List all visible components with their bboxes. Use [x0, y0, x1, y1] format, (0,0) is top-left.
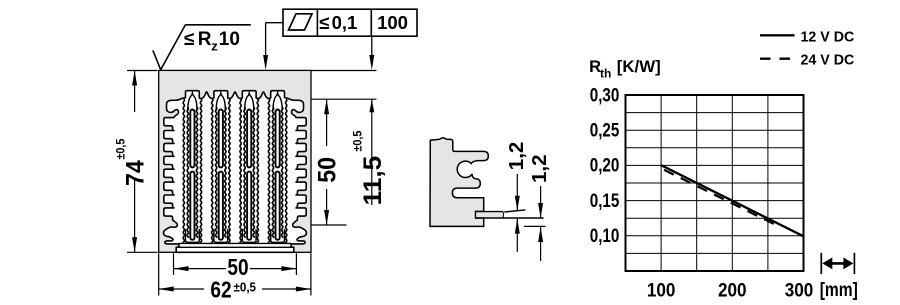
tower channel at x=278	[268, 93, 286, 243]
svg-text:±0,5: ±0,5	[234, 280, 257, 295]
svg-text:100: 100	[647, 279, 676, 300]
solder pin tongue	[476, 210, 544, 218]
mm scale symbol	[821, 253, 854, 274]
heatsink body grey outline (62x74 plan view)	[159, 70, 311, 252]
dimension 11,5 +-0.5 (right side)	[352, 99, 387, 205]
heatsink extruded profile outline with fins	[164, 91, 307, 253]
svg-text:10: 10	[219, 29, 240, 50]
y axis labels	[590, 84, 620, 247]
Rth axis label	[589, 57, 661, 80]
svg-text:50: 50	[227, 255, 248, 280]
curve 12 V DC (solid)	[661, 165, 803, 236]
svg-text:≤: ≤	[319, 12, 329, 33]
svg-text:[mm]: [mm]	[820, 278, 858, 300]
svg-text:0,10: 0,10	[590, 224, 620, 246]
svg-text:62: 62	[210, 278, 231, 303]
svg-text:300: 300	[785, 279, 814, 300]
x axis labels	[647, 278, 858, 300]
leader arrow from tolerance frame (bent)	[263, 23, 283, 70]
legend 24 V DC	[760, 52, 855, 68]
svg-text:0,15: 0,15	[590, 189, 620, 211]
dimension 50 (bottom, lip width)	[174, 253, 297, 280]
svg-text:0,20: 0,20	[590, 154, 620, 176]
surface roughness symbol Rz10	[153, 25, 251, 70]
svg-text:0,30: 0,30	[590, 84, 620, 106]
svg-text:th: th	[600, 67, 611, 81]
flatness tolerance frame 0,1/100	[283, 9, 417, 36]
svg-text:1,2: 1,2	[528, 155, 551, 184]
dimension 74 +-0.5 (left)	[115, 71, 158, 253]
svg-text:±0,5: ±0,5	[115, 138, 128, 160]
tower channel at x=249	[240, 93, 258, 243]
profile base lip line	[176, 246, 294, 248]
dimension 62 +-0.5 (bottom overall)	[159, 253, 311, 303]
svg-text:24 V DC: 24 V DC	[801, 52, 855, 68]
svg-text:[K/W]: [K/W]	[617, 57, 661, 76]
svg-text:12 V DC: 12 V DC	[801, 29, 855, 45]
dimension 1,2 (pin thickness)	[505, 142, 528, 252]
dimension 50 (right side)	[314, 99, 342, 225]
svg-text:≤: ≤	[184, 29, 194, 50]
svg-text:0,25: 0,25	[590, 119, 620, 141]
svg-text:1,2: 1,2	[505, 142, 528, 171]
leader arrow from 100 cell / upper arrow of 11.5 dim	[369, 36, 374, 70]
svg-text:11,5: 11,5	[359, 156, 386, 206]
tower channel at x=192	[183, 93, 201, 243]
legend 12 V DC	[760, 29, 855, 45]
svg-text:R: R	[198, 29, 212, 50]
svg-text:74: 74	[122, 160, 150, 186]
dimension 1,2 (pin offset)	[528, 155, 551, 262]
extension line below pin	[524, 225, 546, 227]
svg-text:0,1: 0,1	[332, 12, 358, 33]
svg-text:±0,5: ±0,5	[352, 130, 365, 152]
svg-text:200: 200	[718, 279, 747, 300]
svg-text:100: 100	[377, 12, 408, 33]
profile base floor line	[179, 242, 291, 244]
graph grid	[626, 95, 804, 271]
solder pin detail profile (grey)	[430, 138, 488, 227]
curve 24 V DC (dashed)	[664, 170, 779, 227]
extension lines right side	[312, 71, 377, 226]
tower channel at x=221	[212, 93, 230, 243]
svg-text:50: 50	[314, 157, 342, 183]
svg-text:z: z	[211, 39, 218, 54]
